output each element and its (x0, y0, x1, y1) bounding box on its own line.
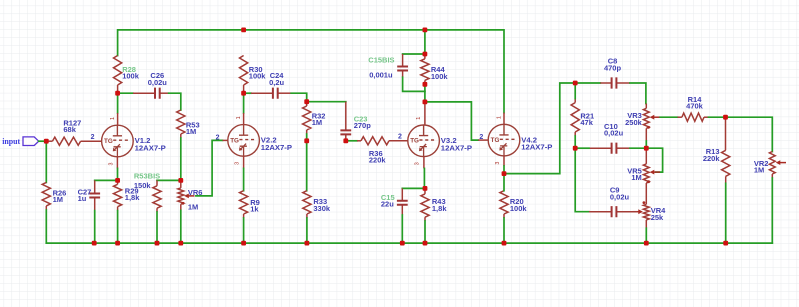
svg-text:3: 3 (495, 162, 501, 165)
capacitor C8 (600, 82, 611, 84)
svg-text:1: 1 (110, 117, 116, 120)
wire C10 node down to C9 (575, 148, 589, 212)
resistor R13 (722, 150, 730, 176)
grid lead V2 (223, 139, 228, 141)
capacitor C26 (133, 92, 155, 94)
resistor R33 (303, 191, 311, 214)
wire R21 to C10 node (574, 136, 576, 148)
capacitor C15 (401, 188, 403, 200)
cathode lead V2 (243, 156, 245, 168)
resistor R36 (361, 137, 389, 145)
svg-text:2: 2 (398, 134, 402, 141)
svg-text:100k: 100k (510, 204, 528, 213)
wire V3 cathode down (423, 168, 425, 188)
wire C26 to R53 (169, 93, 181, 110)
svg-text:22u: 22u (381, 199, 394, 208)
wire R53 to node (180, 138, 182, 180)
svg-text:TG: TG (410, 138, 419, 145)
node R14/R13 (723, 115, 728, 120)
wire R44 to V3 node (424, 84, 426, 102)
wire R20 to bus (503, 218, 505, 243)
resistor R30 (240, 56, 248, 86)
svg-text:100k: 100k (122, 72, 140, 81)
junction R33/bus (305, 241, 310, 246)
junction C23/R36 row (343, 138, 348, 143)
capacitor C24 (251, 92, 272, 94)
resistor R21 (571, 103, 579, 132)
capacitor C15BIS (402, 54, 404, 66)
wire C10 to VR3 node (630, 147, 646, 149)
resistor R29 (114, 184, 122, 206)
junction R28/C26/V1 plate (115, 91, 120, 96)
resistor R43 (421, 194, 429, 217)
wire R13 to bus (725, 183, 727, 243)
wire VR4 to bus (645, 228, 647, 243)
resistor R127 (52, 137, 80, 145)
potentiometer VR6 (178, 188, 184, 204)
wire rail to R44 top (424, 30, 426, 54)
svg-text:12AX7-P: 12AX7-P (441, 143, 472, 152)
wire R28 to V1 plate (117, 93, 119, 113)
wire R53BIS to bus (156, 212, 158, 243)
capacitor C9 (589, 211, 611, 213)
wire VR3 wiper to R14 (660, 116, 677, 118)
svg-text:2: 2 (91, 134, 95, 141)
wire C15BIS bottom (403, 77, 425, 91)
svg-text:0,02u: 0,02u (148, 78, 168, 87)
input port (23, 137, 39, 146)
svg-text:100k: 100k (431, 72, 449, 81)
node V1 cathode (115, 178, 120, 183)
node R53/VR6/R53BIS (178, 178, 183, 183)
wire VR6 wiper to V2 grid (196, 140, 223, 196)
node V3 plate (423, 100, 428, 105)
wire VR6 to bus (180, 210, 182, 243)
capacitor C27 (94, 180, 96, 193)
svg-text:470k: 470k (686, 102, 704, 111)
svg-text:270p: 270p (354, 121, 372, 130)
svg-text:0,2u: 0,2u (269, 78, 284, 87)
lead R13 top (725, 117, 727, 150)
wire R43 to bus (424, 221, 426, 243)
grid lead V4 (478, 139, 488, 141)
wire V1 cathode down (117, 168, 119, 180)
svg-text:1M: 1M (754, 165, 764, 174)
svg-text:R53BIS: R53BIS (134, 172, 160, 181)
svg-text:TG: TG (491, 137, 500, 144)
svg-text:0,001u: 0,001u (369, 71, 393, 80)
svg-text:12AX7-P: 12AX7-P (521, 143, 552, 152)
cathode lead V4 (503, 156, 505, 166)
junction R29/bus (115, 241, 120, 246)
junction R30/C24/V2 plate (241, 91, 246, 96)
svg-text:220k: 220k (369, 156, 387, 165)
svg-text:1M: 1M (53, 195, 63, 204)
wire input to node (39, 140, 47, 142)
wire C8 to VR3 (630, 83, 646, 104)
wire R32 to node (306, 134, 308, 141)
wire R30 node to C24 (244, 92, 251, 94)
svg-text:1: 1 (496, 116, 502, 119)
svg-text:330k: 330k (313, 204, 331, 213)
svg-text:100k: 100k (249, 72, 267, 81)
svg-text:470p: 470p (604, 63, 622, 72)
node R44 bottom (423, 82, 428, 87)
cathode lead V1 (116, 157, 118, 169)
wire R26 to bus (45, 210, 47, 243)
junction rail/R44 (423, 28, 428, 33)
svg-text:1M: 1M (312, 118, 322, 127)
triode V2.2 (228, 125, 260, 157)
node V3 cathode (423, 186, 428, 191)
wire V4 cathode to C8 row (504, 83, 600, 174)
wire R33 to bus (306, 218, 308, 243)
wire node to R33 (306, 141, 308, 191)
svg-text:150k: 150k (134, 181, 152, 190)
wire R29 to bus (117, 211, 119, 244)
wire VR3 to node (645, 141, 647, 148)
svg-text:2: 2 (216, 135, 220, 142)
wire node to R21 (574, 83, 576, 99)
svg-text:1u: 1u (78, 194, 87, 203)
wire node to C23 top (307, 101, 346, 103)
svg-text:2: 2 (479, 134, 483, 141)
svg-text:1M: 1M (631, 173, 641, 182)
resistor R53 (177, 110, 185, 134)
junction C27/bus (92, 241, 97, 246)
svg-text:TG: TG (104, 138, 113, 145)
svg-text:1k: 1k (250, 205, 259, 214)
resistor R26 (42, 182, 50, 206)
wire V3 node to V4 grid (425, 102, 478, 140)
node C8/R21 (573, 81, 578, 86)
svg-text:250k: 250k (625, 118, 643, 127)
resistor R44 (421, 59, 429, 81)
svg-text:TG: TG (230, 137, 239, 144)
wire R44 top to C15BIS (403, 53, 425, 55)
plate lead V2 (243, 113, 245, 125)
resistor R20 (500, 191, 508, 214)
capacitor C23 (345, 102, 347, 130)
wire C27 to bus (94, 211, 96, 244)
wire VR2 to bus (771, 178, 773, 243)
junction rail/R30 (241, 28, 246, 33)
triode V4.2 (488, 124, 520, 156)
triode V3.2 (408, 125, 440, 157)
plate lead V4 (503, 113, 505, 125)
svg-text:47k: 47k (580, 118, 593, 127)
node C24/R32/C23 (304, 99, 309, 104)
svg-text:0,02u: 0,02u (610, 192, 630, 201)
wire C23 to R36 (346, 140, 357, 142)
wire node to R26 (45, 141, 47, 182)
svg-text:12AX7-P: 12AX7-P (261, 143, 292, 152)
junction R53BIS/bus (155, 241, 160, 246)
junction VR6/bus (178, 241, 183, 246)
wire V4 cathode down (503, 166, 505, 174)
svg-text:12AX7-P: 12AX7-P (135, 144, 166, 153)
wire cathode node to C27 (95, 179, 118, 181)
svg-text:3: 3 (415, 162, 421, 165)
wire R9 to bus (243, 218, 245, 243)
triode V1.2 (102, 125, 134, 157)
wire C15 to bus (401, 215, 403, 243)
svg-text:220k: 220k (703, 154, 721, 163)
node input junction (44, 139, 49, 144)
wire C24 to R32 node (291, 93, 307, 102)
node R32/C23/R36/R33 (304, 138, 309, 143)
wire ground bus (46, 242, 772, 244)
resistor R14 (682, 113, 704, 121)
node V4 cathode (502, 171, 507, 176)
svg-text:C15BIS: C15BIS (368, 56, 394, 65)
svg-text:1: 1 (416, 117, 422, 120)
potentiometer VR5 (643, 164, 649, 183)
wire B+ rail (118, 30, 504, 113)
wire node to R20 (503, 174, 505, 191)
svg-text:68k: 68k (63, 125, 76, 134)
resistor R28 (114, 56, 122, 86)
node VR3/VR5/C10 (644, 146, 649, 151)
junction R43/bus (423, 241, 428, 246)
svg-text:0,02u: 0,02u (604, 129, 624, 138)
potentiometer VR4 (643, 204, 649, 220)
wire V2 cathode to R9 (243, 168, 245, 190)
svg-text:input: input (2, 137, 20, 146)
svg-text:1,8k: 1,8k (125, 193, 140, 202)
wire node to VR2 col (726, 117, 773, 151)
resistor R9 (240, 191, 248, 214)
potentiometer VR2 (769, 152, 775, 175)
svg-text:3: 3 (108, 163, 114, 166)
svg-text:1: 1 (236, 116, 242, 119)
svg-text:25k: 25k (651, 213, 664, 222)
wire R28 node to C26 (118, 92, 133, 94)
plate lead V3 (424, 102, 426, 125)
junction R20/bus (502, 241, 507, 246)
wire R30 to V2 plate (243, 93, 245, 113)
node R44 top (423, 52, 428, 57)
capacitor C10 (589, 147, 611, 149)
svg-text:1M: 1M (186, 127, 196, 136)
wire R14 to R13 node (709, 116, 726, 118)
potentiometer VR3 (643, 108, 649, 128)
resistor R53BIS (153, 186, 161, 208)
wire node to R53BIS (157, 179, 181, 181)
plate lead V1 (117, 113, 119, 125)
wire node to C10 (575, 147, 589, 149)
wire VR5 wiper loop (646, 148, 662, 172)
wire node to C15 (402, 187, 425, 189)
cathode lead V3 (423, 157, 425, 169)
junction C15/bus (400, 241, 405, 246)
svg-text:1M: 1M (188, 202, 198, 211)
junction R13/bus (723, 241, 728, 246)
junction VR4/bus (644, 241, 649, 246)
junction R9/bus (241, 241, 246, 246)
svg-text:1,8k: 1,8k (432, 204, 447, 213)
resistor R32 (303, 106, 311, 130)
node R21/C10 (573, 146, 578, 151)
svg-text:3: 3 (235, 162, 241, 165)
